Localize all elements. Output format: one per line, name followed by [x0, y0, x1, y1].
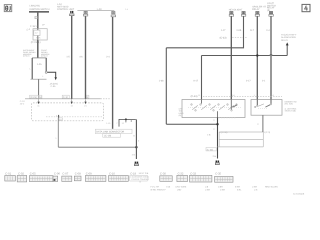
svg-text:C-05: C-05 — [51, 85, 57, 88]
wire passing switch bottom to ladder — [262, 115, 264, 132]
wire from DLC down to connector C-35 — [135, 119, 137, 159]
label ignition switch (above fuse bus) — [30, 4, 50, 10]
label fuse F12 — [26, 23, 45, 31]
svg-text:C-33: C-33 — [190, 172, 196, 175]
svg-text:L-09: L-09 — [97, 8, 102, 11]
svg-text:(C-19): (C-19) — [104, 135, 111, 138]
page marker 4 (top right) — [302, 4, 310, 11]
wire pin16 out of C-10 — [56, 115, 63, 122]
bus bar (ignition feed) — [29, 11, 49, 13]
junction dot at H3 — [256, 54, 258, 56]
svg-text:7.5A: 7.5A — [36, 37, 41, 40]
connector C-07 pinout — [62, 172, 72, 181]
inline connector end (right) — [215, 161, 219, 165]
connector at wire H3 — [255, 11, 259, 16]
svg-text:IGNITION SWITCH: IGNITION SWITCH — [30, 8, 50, 11]
label license lamp (above wire H4) — [267, 2, 276, 12]
wire entry arrow pin 11 — [37, 99, 40, 107]
svg-text:NEXT S/B: NEXT S/B — [139, 172, 149, 175]
dashed inner line — [46, 116, 103, 118]
svg-text:J/C(5-B): J/C(5-B) — [50, 82, 58, 85]
component lead line — [77, 10, 114, 12]
svg-text:(PA. SW): (PA. SW) — [285, 103, 294, 106]
label (C-05) M — [30, 95, 42, 99]
svg-text:DATA LINK CONNECTOR: DATA LINK CONNECTOR — [96, 131, 124, 134]
svg-text:RELAY: RELAY — [252, 8, 260, 11]
connector C-06 pinout — [53, 172, 60, 181]
svg-text:C-06: C-06 — [54, 172, 60, 175]
svg-text:RELAY: RELAY — [281, 39, 289, 42]
svg-text:C-01: C-01 — [5, 172, 11, 175]
junction bar — [32, 57, 47, 59]
svg-text:C-35: C-35 — [215, 172, 221, 175]
connector C-35 pinout — [215, 172, 233, 182]
page marker 8J (top left) — [4, 5, 11, 12]
svg-text:L:GR: L:GR — [252, 185, 257, 188]
inline connector end (left) — [134, 162, 138, 166]
connector C-32 pinout — [177, 172, 188, 181]
connector at wire H1 — [229, 11, 233, 16]
label C-10 20-2 (left margin) — [20, 100, 26, 106]
wire to J/C with arrow — [45, 71, 57, 80]
label dimmer passing switch — [285, 101, 297, 113]
node C marker — [35, 16, 38, 19]
svg-text:RHD: GLASS: RHD: GLASS — [265, 185, 278, 188]
connector C-09 pinout — [85, 172, 106, 181]
svg-text:2-17: 2-17 — [246, 79, 251, 82]
wire to connector C-05 — [38, 79, 40, 98]
svg-text:SPOILER HT: SPOILER HT — [252, 6, 266, 9]
svg-text:L:GR: L:GR — [205, 188, 210, 191]
lighting switch box — [182, 100, 245, 118]
svg-text:LHD-: LHD- — [177, 188, 182, 191]
svg-text:ANTI-SKID: ANTI-SKID — [57, 5, 69, 8]
svg-text:C-32: C-32 — [178, 172, 184, 175]
bus wire to theft-alarm (with hop over H4) — [202, 54, 288, 55]
passing switch contacts — [255, 104, 272, 109]
connector C-01 pinout — [5, 172, 16, 181]
wire 2 down — [85, 16, 87, 99]
junction dot on output — [216, 123, 218, 125]
connector at wire H2 — [241, 11, 245, 16]
svg-text:L:G: L:G — [254, 188, 258, 191]
svg-text:(LHD) ②: (LHD) ② — [41, 55, 48, 58]
passing switch box — [251, 100, 282, 116]
wire 3 down to data link connector — [112, 17, 114, 129]
label front harness (right) — [41, 49, 50, 57]
connector C-19 note — [129, 172, 149, 183]
svg-text:△-1: △-1 — [26, 28, 31, 31]
wire entry arrow pin 21 — [84, 99, 87, 107]
connector C-30 pinout — [160, 172, 172, 181]
connector line (C-33) at switch — [191, 94, 282, 98]
svg-text:3:GR: 3:GR — [235, 185, 240, 188]
wire fuse to junction — [37, 40, 39, 58]
svg-text:C-05: C-05 — [30, 172, 36, 175]
svg-text:(C-30): (C-30) — [207, 148, 213, 151]
svg-text:ALARM HORN: ALARM HORN — [281, 36, 296, 39]
svg-text:G-HB: FRONT-F: G-HB: FRONT-F — [151, 188, 167, 191]
wire from bus to fuse — [37, 13, 39, 29]
fuse box outline — [33, 29, 47, 40]
data link connector top bar — [119, 118, 136, 126]
label column switch — [179, 107, 185, 117]
svg-text:1-17: 1-17 — [221, 29, 226, 32]
svg-text:C-09: C-09 — [86, 172, 92, 175]
wire H4 down to passing switch — [270, 16, 272, 99]
svg-text:SWITCH (B): SWITCH (B) — [285, 110, 296, 113]
label DATA LINK CONNECTOR — [95, 129, 135, 137]
connector (light) at wire 2 — [83, 11, 87, 16]
connector C-33 pinout — [190, 172, 212, 182]
arrow to theft-alarm horn relay — [286, 42, 289, 55]
svg-text:(C-02-1): (C-02-1) — [31, 41, 41, 44]
svg-text:C-19: C-19 — [130, 172, 136, 175]
ladder junction to passing switch return — [218, 132, 264, 147]
connector C-02 pinout — [17, 172, 27, 182]
connector at wire H4 — [269, 11, 273, 16]
wire stubs into lighting switch — [201, 100, 203, 104]
label (C-33) with dashed leader — [220, 37, 247, 40]
data link pin labels — [106, 122, 125, 125]
wire H3 down to passing switch — [256, 16, 258, 99]
dashed stub right — [218, 117, 236, 119]
svg-text:HEADLIGHT: HEADLIGHT — [229, 8, 243, 11]
wire down-left to bottom rail — [57, 118, 59, 147]
svg-text:F1-U: RF: F1-U: RF — [151, 185, 160, 188]
label J/C (5-B) — [50, 82, 58, 88]
label instrument panel harness (left) — [23, 49, 36, 57]
svg-text:C-08: C-08 — [75, 172, 81, 175]
svg-text:C-07: C-07 — [62, 172, 68, 175]
label C-10 — [62, 95, 69, 99]
svg-text:1:GR: 1:GR — [220, 188, 225, 191]
wire branch right — [45, 58, 47, 72]
svg-text:1-08: 1-08 — [159, 79, 164, 82]
dashed harness box — [32, 103, 104, 121]
svg-text:1:BR: 1:BR — [218, 185, 223, 188]
svg-text:(LHD) ①: (LHD) ① — [23, 55, 30, 58]
svg-text:1-05: 1-05 — [37, 63, 42, 66]
connector boundary line C-05/C-10 — [25, 98, 101, 100]
connector (light) at wire 3 — [111, 11, 116, 16]
svg-text:(B): (B) — [179, 114, 182, 117]
junction bar 2 — [31, 78, 47, 80]
svg-text:LINK(2-B): LINK(2-B) — [30, 4, 40, 7]
connector C-05 pinout — [29, 172, 53, 181]
svg-text:1 (C-3): 1 (C-3) — [264, 131, 271, 134]
svg-text:TO(US) THEFT-: TO(US) THEFT- — [281, 34, 297, 37]
svg-text:C-10: C-10 — [109, 172, 115, 175]
label N — [86, 95, 89, 99]
wire H2 down then left — [166, 16, 243, 48]
svg-text:LHD: WIRE: LHD: WIRE — [176, 185, 187, 188]
svg-text:20-2: 20-2 — [20, 102, 25, 105]
wire left branch down — [165, 48, 167, 124]
wire branch left — [31, 58, 33, 79]
label to theft-alarm horn relay — [281, 34, 297, 42]
switch output wire down — [217, 118, 219, 159]
svg-text:AC312B4AB: AC312B4AB — [293, 193, 305, 196]
wire H1 down to lighting switch — [230, 16, 232, 99]
svg-text:2-0B: 2-0B — [236, 29, 241, 32]
connector C-08 pinout — [74, 172, 81, 181]
junction dot — [135, 146, 137, 148]
wire entry arrow pin 14 — [71, 99, 74, 107]
connector (dark) at wire 1 — [70, 11, 74, 16]
svg-text:CONTROL UNIT: CONTROL UNIT — [57, 8, 75, 11]
lighting switch contacts — [188, 104, 241, 111]
wire across to switch output — [166, 123, 217, 125]
labels on output wire — [207, 119, 227, 136]
svg-text:(C-33): (C-33) — [191, 95, 198, 98]
bottom rail wire — [58, 146, 136, 148]
connector C-10 pinout — [109, 172, 129, 181]
svg-text:C-10: C-10 — [20, 100, 26, 103]
svg-text:F:12 2: F:12 2 — [30, 25, 38, 28]
svg-text:(C-33): (C-33) — [220, 37, 227, 40]
fuse F12 element — [34, 29, 41, 40]
wire down from bus corner — [201, 56, 203, 100]
remarks note rows — [151, 185, 279, 191]
label L-04 / control unit (top) — [57, 3, 75, 11]
svg-text:C-02: C-02 — [18, 172, 24, 175]
label spoiler (above wire H3) — [252, 6, 266, 12]
svg-text:L-04: L-04 — [57, 3, 62, 6]
svg-text:A-17: A-17 — [193, 79, 199, 82]
wire 1 down — [71, 16, 73, 99]
svg-text:C-30: C-30 — [160, 172, 166, 175]
